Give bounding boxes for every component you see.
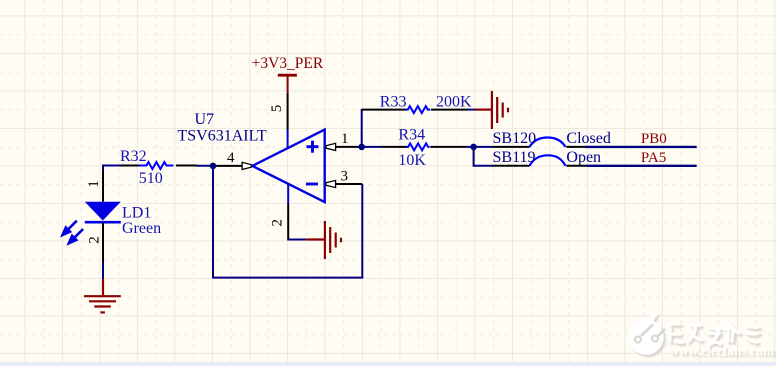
resistor R32 right pin [176,165,197,167]
wire R32 to pin4 node [197,165,216,167]
wire R34 to junction 2 [466,146,475,148]
solder bridge SB120 pin left [493,146,530,148]
resistor R32 zigzag [139,162,173,169]
wire corner to LED [102,165,104,173]
resistor R34 zigzag [407,143,430,150]
power bar +3V3_PER [278,74,297,77]
svg-text:R34: R34 [398,127,425,144]
wire pin2 to ground [288,239,306,241]
junction node pin4/feedback [210,163,217,170]
op-amp U7 triangle body [252,130,324,203]
svg-text:Closed: Closed [566,130,610,147]
svg-text:4: 4 [227,150,235,166]
op-amp minus sign [306,183,318,186]
solder bridge SB119 arc [530,155,566,166]
svg-text:U7: U7 [195,111,215,128]
svg-text:2: 2 [270,219,286,227]
bottom edge strip [0,362,776,366]
svg-text:Open: Open [566,149,601,166]
svg-text:R32: R32 [120,148,147,165]
solder bridge SB119 pin left [493,165,530,167]
wire junction2 down to SB119 row [474,147,493,166]
wire SB120 to PB0 [586,146,697,148]
solder bridge SB120 arc [530,138,566,147]
wire junction2 to SB120 [474,146,493,148]
svg-text:1: 1 [341,131,349,147]
wire SB119 to PA5 [586,165,697,167]
LED LD1 pin 1 [102,171,104,202]
wire junction up to R33 [361,109,363,148]
op-amp plus sign [307,141,319,153]
resistor R33 zigzag [405,106,430,113]
wire LED to ground [102,262,104,280]
ground at pin 2 (rotated earth) [306,221,341,259]
feedback wire [213,166,362,278]
svg-text:1: 1 [86,180,102,188]
wire pin1 to R34 junction [358,144,365,151]
svg-text:Green: Green [122,220,161,237]
svg-text:10K: 10K [398,152,426,169]
LED LD1 pin 2 [102,223,104,261]
svg-text:SB120: SB120 [493,130,537,147]
wire output to R32 corner [103,165,121,167]
LED LD1 triangle [85,202,121,221]
svg-text:PB0: PB0 [641,131,667,147]
op-amp pin 2 [287,184,289,204]
resistor R33 right pin [431,109,467,111]
solder bridge SB119 pin right [566,165,586,167]
ground at R33 (rotated earth) [475,91,508,129]
ground below LED [84,279,121,313]
svg-text:PA5: PA5 [641,150,666,166]
op-amp pin 1 [335,146,362,148]
op-amp pin 4 output [215,165,243,167]
resistor R33 left pin [362,109,406,111]
op-amp pin 3 [335,183,363,185]
op-amp U7 pin 5 [287,93,289,130]
svg-text:2: 2 [87,236,103,244]
resistor R34 right pin [430,146,466,148]
svg-text:LD1: LD1 [122,204,151,221]
LED LD1 cathode bar [85,221,121,224]
svg-text:+3V3_PER: +3V3_PER [252,55,324,72]
resistor R32 left pin [120,165,140,167]
solder bridge SB120 pin right [566,146,586,148]
svg-text:R33: R33 [380,94,407,111]
svg-text:SB119: SB119 [493,149,536,166]
LED light arrows [63,221,84,244]
svg-text:200K: 200K [436,94,472,111]
svg-text:5: 5 [269,105,285,113]
svg-text:TSV631AILT: TSV631AILT [178,127,267,144]
svg-text:3: 3 [341,169,349,185]
resistor R34 left pin [382,146,407,148]
svg-text:510: 510 [139,170,163,187]
